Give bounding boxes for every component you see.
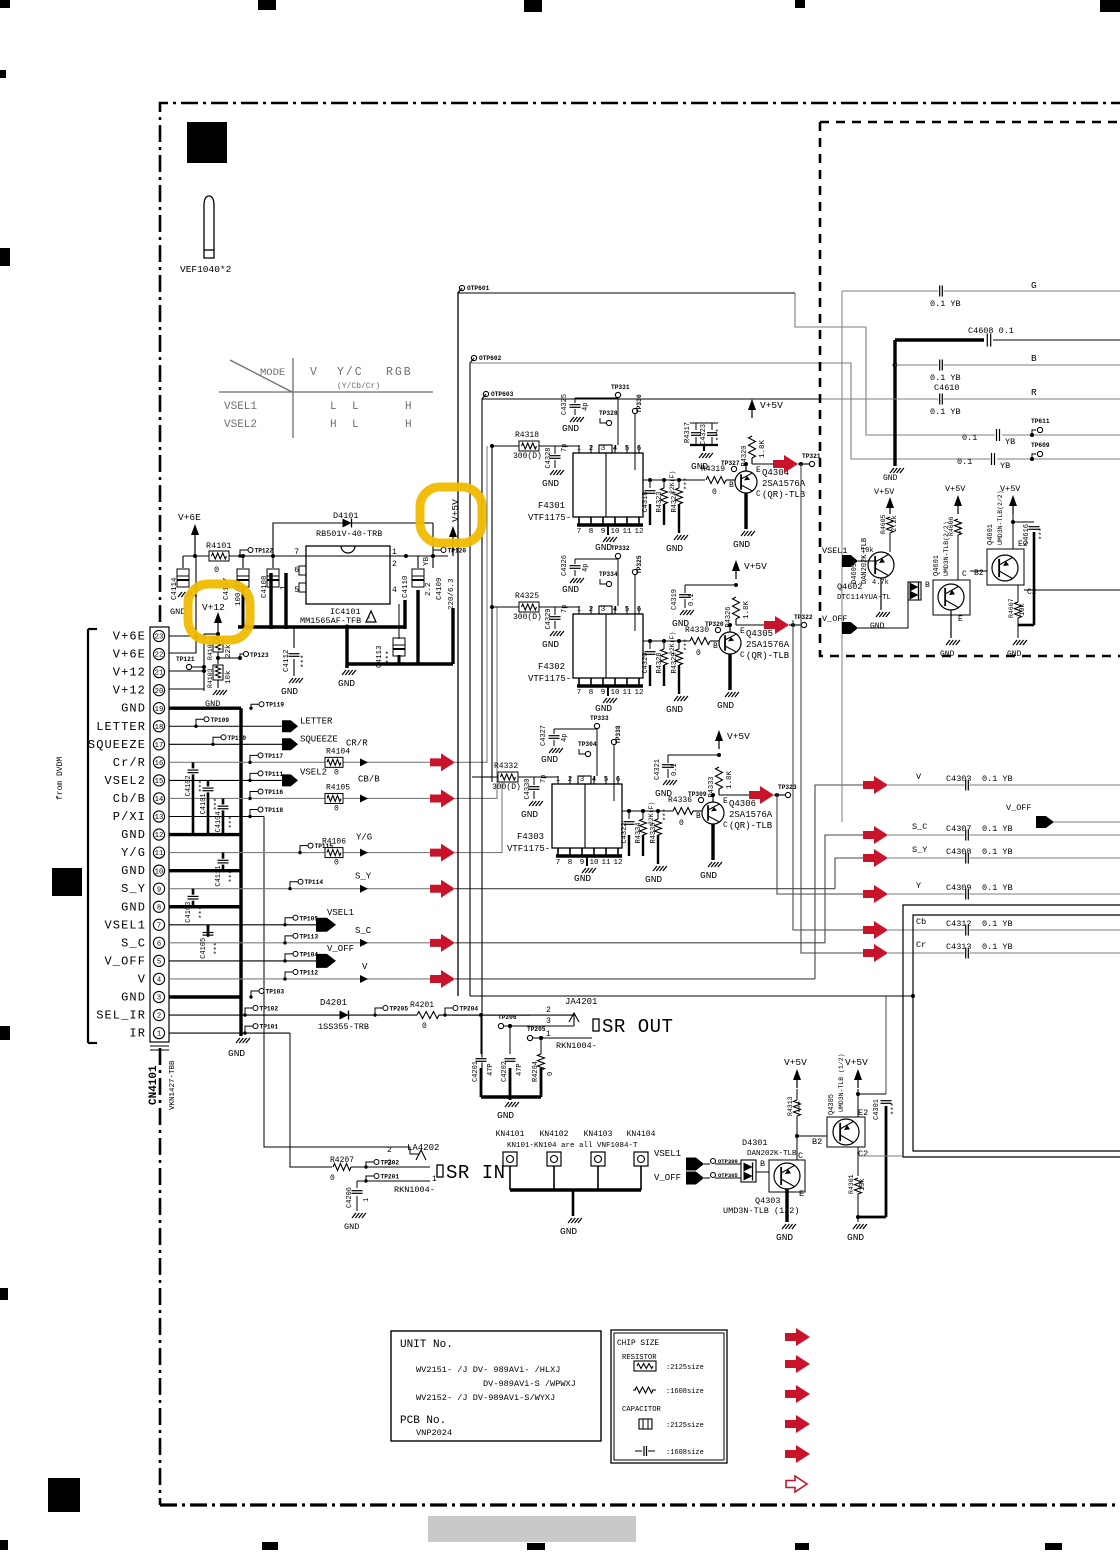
svg-text:D4101: D4101: [333, 511, 359, 521]
svg-text:E: E: [958, 615, 963, 624]
svg-text:TP202: TP202: [381, 1160, 400, 1167]
svg-text:GND: GND: [562, 584, 579, 595]
svg-text:V+6E: V+6E: [178, 512, 201, 523]
svg-text:1.8K: 1.8K: [726, 770, 734, 789]
svg-text:CAPACITOR: CAPACITOR: [622, 1406, 662, 1414]
svg-text:RKN1004-: RKN1004-: [394, 1185, 435, 1195]
svg-text:L: L: [352, 419, 359, 431]
svg-text:WV2152- /J DV-989AVi-S/WYXJ: WV2152- /J DV-989AVi-S/WYXJ: [416, 1393, 555, 1403]
svg-text:7: 7: [157, 922, 161, 930]
svg-text:***: ***: [386, 650, 394, 664]
svg-text:E: E: [740, 627, 745, 636]
svg-text:V: V: [138, 972, 146, 986]
svg-text:22K(F): 22K(F): [669, 632, 676, 655]
svg-text:V+6E: V+6E: [113, 648, 146, 662]
svg-text:R4313: R4313: [787, 1096, 794, 1116]
svg-text:B: B: [729, 481, 734, 490]
svg-text:R4605: R4605: [880, 514, 887, 534]
svg-text:TP304: TP304: [578, 741, 597, 748]
svg-text:C4608 0.1: C4608 0.1: [968, 326, 1014, 336]
svg-text:15: 15: [155, 778, 164, 786]
svg-text:21: 21: [155, 670, 164, 678]
svg-text:TP205: TP205: [390, 1006, 409, 1013]
svg-text:KN101-KN104 are all VNF1084-T: KN101-KN104 are all VNF1084-T: [507, 1142, 638, 1150]
svg-text:L: L: [330, 401, 337, 413]
svg-text:2: 2: [157, 1013, 161, 1021]
svg-text:L: L: [352, 401, 359, 413]
svg-text:11: 11: [601, 859, 611, 867]
svg-text:10: 10: [610, 689, 620, 697]
svg-text:C4330: C4330: [524, 778, 532, 799]
svg-text:VSEL2: VSEL2: [224, 419, 257, 431]
svg-text:G: G: [1031, 280, 1037, 291]
svg-text:V+12: V+12: [113, 684, 146, 698]
svg-text:GND: GND: [666, 704, 683, 715]
svg-text:SEL_IR: SEL_IR: [96, 1009, 146, 1023]
svg-text:4p: 4p: [561, 734, 569, 742]
svg-text:C4101: C4101: [200, 793, 208, 814]
svg-text:B2: B2: [974, 569, 984, 578]
svg-text:P/XI: P/XI: [113, 810, 146, 824]
svg-text:23: 23: [155, 634, 164, 642]
svg-text:GND: GND: [121, 702, 146, 716]
svg-text:9: 9: [580, 859, 585, 867]
svg-text:C4206: C4206: [346, 1187, 354, 1208]
svg-text:8: 8: [157, 904, 161, 912]
svg-text:V+12: V+12: [202, 602, 225, 613]
svg-text:TP113: TP113: [300, 933, 319, 940]
svg-text:0.1 YB: 0.1 YB: [930, 373, 961, 383]
svg-text:12: 12: [613, 859, 622, 867]
svg-text:TP111: TP111: [265, 771, 284, 778]
svg-text:R4317: R4317: [684, 422, 692, 443]
svg-text:TP118: TP118: [265, 807, 284, 814]
svg-text:1: 1: [432, 1175, 437, 1184]
svg-text:R4606: R4606: [948, 516, 955, 536]
svg-text:Y: Y: [916, 881, 921, 891]
svg-text:6: 6: [294, 566, 299, 575]
svg-text:22K(F): 22K(F): [648, 802, 655, 825]
svg-text:DV-989AVi-S /WPWXJ: DV-989AVi-S /WPWXJ: [483, 1379, 576, 1389]
svg-text:10: 10: [155, 868, 164, 876]
svg-text:0.1 YB: 0.1 YB: [982, 847, 1013, 857]
svg-text:13: 13: [155, 814, 164, 822]
svg-text:R4201: R4201: [410, 1001, 434, 1010]
svg-text:S_C: S_C: [355, 926, 372, 936]
svg-text:V: V: [362, 962, 368, 972]
svg-text:GND: GND: [574, 873, 591, 884]
svg-text:DTC114YUA-TL: DTC114YUA-TL: [837, 594, 892, 602]
svg-text:C4326: C4326: [561, 555, 569, 576]
svg-text:MODE: MODE: [260, 367, 285, 379]
svg-text:TP204: TP204: [460, 1006, 479, 1013]
svg-text:B: B: [713, 642, 718, 651]
svg-text:10: 10: [610, 528, 620, 536]
svg-text:TP332: TP332: [611, 545, 630, 552]
svg-text:PCB No.: PCB No.: [400, 1415, 446, 1427]
svg-text::2125size: :2125size: [666, 1364, 704, 1372]
svg-text:7p: 7p: [561, 605, 569, 613]
svg-text:2: 2: [392, 560, 397, 569]
svg-text:C4616: C4616: [1023, 524, 1031, 545]
svg-text:KN4102: KN4102: [540, 1130, 569, 1139]
svg-text:47P: 47P: [516, 1063, 524, 1076]
svg-text:R4328: R4328: [656, 652, 664, 673]
svg-text:R4334: R4334: [635, 822, 643, 843]
svg-text:3: 3: [157, 995, 161, 1003]
svg-text:0: 0: [214, 565, 219, 575]
svg-text:V+5V: V+5V: [760, 400, 783, 411]
svg-text:R4301: R4301: [848, 1174, 855, 1194]
svg-text:C4318: C4318: [642, 491, 650, 512]
svg-text:0.1 YB: 0.1 YB: [982, 942, 1013, 952]
svg-text:JA4201: JA4201: [565, 997, 597, 1007]
svg-text:R4105: R4105: [326, 783, 350, 792]
svg-text:3: 3: [580, 776, 585, 784]
svg-text:7: 7: [577, 689, 582, 697]
svg-text:(QR)-TLB: (QR)-TLB: [729, 821, 773, 831]
svg-text:16: 16: [155, 760, 164, 768]
svg-text:VSEL1: VSEL1: [327, 908, 354, 918]
svg-text:R4106: R4106: [322, 838, 346, 847]
svg-text:4p: 4p: [582, 403, 590, 411]
svg-text:V+5V: V+5V: [450, 499, 461, 522]
svg-text:7: 7: [577, 528, 582, 536]
svg-text:2: 2: [546, 1006, 551, 1015]
svg-text:GND: GND: [281, 686, 298, 697]
svg-text:B: B: [925, 581, 930, 590]
svg-text:TP114: TP114: [305, 879, 324, 886]
svg-text:TP320: TP320: [705, 621, 724, 628]
svg-text:GND: GND: [883, 474, 898, 483]
svg-text:C4111: C4111: [215, 866, 223, 887]
svg-text:0: 0: [330, 1174, 335, 1183]
svg-text:***: ***: [959, 521, 967, 534]
svg-text:300(D): 300(D): [492, 783, 521, 792]
svg-text:0: 0: [334, 859, 339, 868]
svg-text:Y/C: Y/C: [337, 366, 364, 379]
svg-text:7p: 7p: [540, 775, 548, 783]
svg-text:C4322: C4322: [621, 822, 629, 843]
svg-text:VSEL2: VSEL2: [300, 767, 327, 777]
svg-text:OTP601: OTP601: [467, 285, 490, 292]
svg-text:***: ***: [716, 428, 724, 441]
svg-text:Y/G: Y/G: [121, 846, 146, 860]
svg-text:GND: GND: [645, 874, 662, 885]
svg-text:UMD3N-TLB(2/2): UMD3N-TLB(2/2): [997, 490, 1004, 545]
svg-text:2: 2: [387, 1146, 392, 1155]
svg-text::2125size: :2125size: [666, 1422, 704, 1430]
svg-text:(QR)-TLB: (QR)-TLB: [746, 651, 790, 661]
svg-text:TP609: TP609: [1031, 442, 1050, 449]
svg-text:TP206: TP206: [498, 1014, 517, 1021]
svg-text:C4319: C4319: [671, 589, 679, 610]
svg-text:S_Y: S_Y: [355, 872, 372, 882]
svg-text:TP338: TP338: [615, 725, 622, 744]
svg-text:0.1 YB: 0.1 YB: [982, 919, 1013, 929]
svg-text:V+5V: V+5V: [1000, 484, 1021, 494]
svg-text:Q4306: Q4306: [729, 799, 756, 809]
svg-text:VTF1175-: VTF1175-: [528, 513, 571, 523]
svg-text:VNP2024: VNP2024: [416, 1428, 452, 1438]
svg-text:V_OFF: V_OFF: [104, 954, 146, 968]
svg-text:3: 3: [546, 1017, 551, 1026]
svg-text:TP334: TP334: [599, 571, 618, 578]
svg-text:Q4305: Q4305: [828, 1094, 836, 1115]
svg-text:TP205: TP205: [527, 1026, 546, 1033]
svg-text:CN4101: CN4101: [148, 1065, 160, 1105]
svg-text:9: 9: [157, 886, 161, 894]
svg-text:B: B: [1031, 353, 1037, 364]
svg-text:C4201: C4201: [472, 1061, 480, 1082]
svg-text:TP116: TP116: [265, 789, 284, 796]
svg-text:(QR)-TLB: (QR)-TLB: [762, 490, 806, 500]
svg-text:C: C: [723, 821, 728, 830]
svg-text:22K(F): 22K(F): [669, 471, 676, 494]
svg-text:0.1 YB: 0.1 YB: [982, 883, 1013, 893]
svg-text::1608size: :1608size: [666, 1449, 704, 1457]
svg-text:C2: C2: [1027, 588, 1037, 597]
svg-text:1SS355-TRB: 1SS355-TRB: [318, 1022, 369, 1032]
svg-text:Cb/B: Cb/B: [113, 792, 146, 806]
svg-text:TP123: TP123: [250, 652, 269, 659]
svg-text:GND: GND: [542, 478, 559, 489]
svg-text:DAN202K-TLB: DAN202K-TLB: [747, 1150, 797, 1158]
svg-text:TP117: TP117: [265, 753, 284, 760]
svg-text:C4328: C4328: [545, 447, 553, 468]
svg-text:C4112: C4112: [283, 649, 291, 672]
svg-text:GND: GND: [562, 423, 579, 434]
svg-text:0: 0: [422, 1022, 427, 1031]
svg-text:VSEL2: VSEL2: [104, 774, 146, 788]
svg-text::1608size: :1608size: [666, 1388, 704, 1396]
svg-text:C4108: C4108: [261, 575, 269, 598]
svg-text:VEF1040*2: VEF1040*2: [180, 264, 232, 275]
svg-text:0: 0: [696, 649, 701, 658]
svg-text:2.2k: 2.2k: [891, 515, 899, 532]
svg-text:VSEL1: VSEL1: [104, 918, 146, 932]
svg-text:V+5V: V+5V: [845, 1057, 868, 1068]
svg-text:C4105: C4105: [200, 938, 208, 959]
svg-text:TP201: TP201: [381, 1174, 400, 1181]
svg-text:1: 1: [363, 1198, 371, 1202]
svg-text:TP309: TP309: [688, 791, 707, 798]
svg-text:TP331: TP331: [611, 384, 630, 391]
svg-text:2SA1576A: 2SA1576A: [746, 640, 790, 650]
svg-text:***: ***: [229, 816, 237, 829]
svg-text:KN4104: KN4104: [627, 1130, 656, 1139]
svg-text:C: C: [756, 490, 761, 499]
svg-text:YB: YB: [1005, 437, 1015, 447]
svg-text:9: 9: [601, 528, 606, 536]
svg-text:7p: 7p: [561, 444, 569, 452]
svg-text:10k: 10k: [1019, 603, 1027, 616]
svg-text:V_OFF: V_OFF: [1006, 803, 1032, 813]
svg-text:V_OFF: V_OFF: [327, 944, 354, 954]
svg-text:GND: GND: [121, 991, 146, 1005]
svg-text:V: V: [310, 366, 317, 379]
svg-text:S_C: S_C: [121, 936, 146, 950]
svg-text:CB/B: CB/B: [358, 774, 380, 784]
svg-text:1.8K: 1.8K: [743, 600, 751, 619]
svg-text:C4102: C4102: [185, 775, 193, 796]
svg-text:OTP603: OTP603: [491, 391, 514, 398]
svg-text:TP328: TP328: [599, 410, 618, 417]
svg-text:10k: 10k: [859, 1178, 867, 1191]
svg-text:0: 0: [334, 768, 339, 777]
svg-text:GND: GND: [691, 461, 708, 472]
svg-text:LETTER: LETTER: [300, 716, 333, 726]
svg-text:KN4103: KN4103: [584, 1130, 613, 1139]
svg-text:F4303: F4303: [517, 832, 544, 842]
svg-text:20: 20: [155, 688, 164, 696]
svg-text:GND: GND: [595, 703, 612, 714]
svg-text:12: 12: [155, 832, 164, 840]
svg-text:Cr: Cr: [916, 940, 926, 950]
svg-text:E: E: [799, 1189, 804, 1199]
svg-text:8: 8: [568, 859, 573, 867]
svg-text:3: 3: [601, 606, 606, 614]
svg-text:V_OFF: V_OFF: [654, 1173, 681, 1183]
svg-text:2.2: 2.2: [425, 582, 433, 596]
svg-text:GND: GND: [541, 754, 558, 765]
svg-text:0.1: 0.1: [962, 433, 977, 443]
svg-text:***: ***: [798, 1100, 806, 1113]
svg-text:9: 9: [601, 689, 606, 697]
svg-text:R4607: R4607: [1008, 598, 1015, 618]
svg-text:R4101: R4101: [206, 541, 232, 551]
svg-text:11: 11: [155, 850, 164, 858]
svg-text:VSEL1: VSEL1: [224, 401, 257, 413]
svg-text:D4201: D4201: [320, 998, 347, 1008]
svg-text:DAN202K-TLB: DAN202K-TLB: [861, 538, 869, 584]
svg-text:***: ***: [684, 477, 692, 490]
svg-text:TP103: TP103: [266, 989, 285, 996]
svg-text:300(D): 300(D): [513, 452, 542, 461]
svg-text:C4325: C4325: [561, 394, 569, 415]
svg-text:R4204: R4204: [532, 1061, 540, 1082]
svg-text:Q4303: Q4303: [755, 1196, 781, 1206]
svg-text:GND: GND: [733, 539, 750, 550]
svg-text:VTF1175-: VTF1175-: [507, 844, 550, 854]
svg-text:CR/R: CR/R: [346, 738, 368, 748]
svg-text:!: !: [367, 616, 371, 623]
svg-text:C4202: C4202: [501, 1061, 509, 1082]
svg-text:B: B: [696, 812, 701, 821]
svg-text:4: 4: [392, 586, 397, 595]
svg-text:F4302: F4302: [538, 662, 565, 672]
svg-text:SQUEEZE: SQUEEZE: [88, 738, 146, 752]
svg-text:GND: GND: [497, 1110, 514, 1121]
svg-text:R4104: R4104: [326, 747, 350, 756]
svg-text:GND: GND: [672, 618, 689, 629]
svg-text:V+5V: V+5V: [784, 1057, 807, 1068]
svg-text:3: 3: [601, 445, 606, 453]
svg-text:C4301: C4301: [873, 1099, 881, 1120]
svg-text:C4323: C4323: [700, 424, 708, 445]
svg-text:Q4305: Q4305: [746, 629, 773, 639]
svg-text:E2: E2: [858, 1108, 868, 1118]
svg-text:2SA1576A: 2SA1576A: [729, 810, 773, 820]
svg-text:0.1 YB: 0.1 YB: [930, 299, 961, 309]
svg-text:TP109: TP109: [211, 717, 230, 724]
svg-text:LA4202: LA4202: [407, 1143, 439, 1153]
svg-text:S_Y: S_Y: [912, 845, 927, 855]
svg-text:7: 7: [556, 859, 561, 867]
svg-text:V+5V: V+5V: [874, 487, 895, 497]
svg-text:MM1565AF-TFB: MM1565AF-TFB: [300, 616, 361, 626]
svg-text:SQUEEZE: SQUEEZE: [300, 734, 338, 744]
svg-text:C: C: [962, 570, 967, 579]
svg-text:5: 5: [294, 586, 299, 595]
svg-text:Cb: Cb: [916, 917, 926, 927]
svg-text:R: R: [1031, 387, 1037, 398]
svg-text:11: 11: [622, 528, 632, 536]
svg-text:19: 19: [155, 706, 164, 714]
svg-text:GND: GND: [1007, 650, 1022, 659]
svg-text:GND: GND: [170, 607, 185, 617]
svg-text:from DVDM: from DVDM: [56, 757, 65, 800]
svg-text:22: 22: [155, 652, 164, 660]
svg-text:Cr/R: Cr/R: [113, 756, 146, 770]
svg-text:12: 12: [634, 528, 643, 536]
svg-text:Q4601: Q4601: [933, 555, 941, 576]
svg-text:22k: 22k: [225, 644, 233, 658]
svg-text:TP321: TP321: [802, 453, 821, 460]
svg-text:C4103: C4103: [185, 902, 193, 923]
svg-text:R4325: R4325: [515, 592, 539, 601]
svg-text:GND: GND: [338, 678, 355, 689]
svg-text:E: E: [723, 797, 728, 806]
svg-text:V+12: V+12: [113, 666, 146, 680]
svg-text:IR: IR: [129, 1027, 146, 1041]
svg-text:GND: GND: [870, 622, 885, 631]
svg-text:GND: GND: [717, 700, 734, 711]
svg-text:GND: GND: [121, 828, 146, 842]
svg-text:TP121: TP121: [176, 656, 195, 663]
svg-text:Y/G: Y/G: [356, 833, 372, 843]
svg-text:YB: YB: [1000, 461, 1010, 471]
svg-text:10k: 10k: [225, 670, 233, 684]
svg-text:LETTER: LETTER: [96, 720, 146, 734]
svg-text:GND: GND: [344, 1222, 359, 1232]
svg-text:TP102: TP102: [260, 1006, 279, 1013]
svg-text:SR OUT: SR OUT: [602, 1016, 673, 1038]
svg-text:KN4101: KN4101: [496, 1130, 525, 1139]
svg-text:GND: GND: [595, 542, 612, 553]
svg-text:R4323: R4323: [656, 491, 664, 512]
svg-text:17: 17: [155, 742, 164, 750]
svg-text:8: 8: [589, 528, 594, 536]
svg-text:***: ***: [199, 906, 207, 919]
svg-text:***: ***: [229, 870, 237, 883]
svg-text:C4109: C4109: [436, 577, 444, 600]
svg-text:0: 0: [334, 804, 339, 813]
svg-text:C4320: C4320: [642, 652, 650, 673]
svg-text:C4329: C4329: [545, 608, 553, 629]
svg-text:***: ***: [663, 808, 671, 821]
svg-text:V: V: [916, 772, 922, 782]
svg-text:10k: 10k: [861, 547, 874, 555]
svg-text:TP333: TP333: [590, 715, 609, 722]
svg-text:11: 11: [622, 689, 632, 697]
svg-text:RB501V-40-TRB: RB501V-40-TRB: [316, 529, 382, 539]
svg-text:CHIP SIZE: CHIP SIZE: [617, 1340, 659, 1348]
svg-text:2SA1576A: 2SA1576A: [762, 479, 806, 489]
svg-text:4p: 4p: [582, 564, 590, 572]
svg-text:TP323: TP323: [778, 784, 797, 791]
svg-text:VTF1175-: VTF1175-: [528, 674, 571, 684]
